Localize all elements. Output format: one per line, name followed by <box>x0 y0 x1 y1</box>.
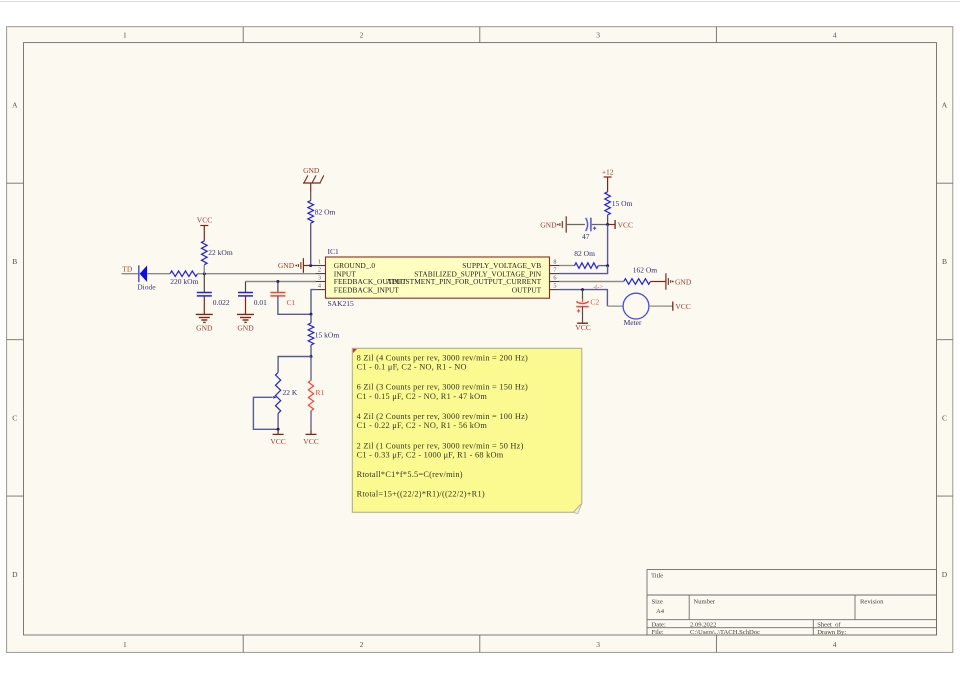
wire IC pin4 down <box>311 290 316 315</box>
pin 8 SUPPLY_VOLTAGE_VB <box>550 265 560 267</box>
svg-text:4 Zil (2 Counts per rev, 3000: 4 Zil (2 Counts per rev, 3000 rev/min = … <box>357 412 528 421</box>
svg-text:A: A <box>12 101 18 110</box>
wire R220k to IC pin2 <box>198 273 316 275</box>
svg-text:GND: GND <box>540 220 557 229</box>
wire pot wiper loop <box>253 397 278 429</box>
svg-text:SAK215: SAK215 <box>328 299 355 308</box>
svg-text:C1 - 0.1 μF, C2 - NO, R1 - NO: C1 - 0.1 μF, C2 - NO, R1 - NO <box>357 363 467 372</box>
svg-text:B: B <box>12 257 17 266</box>
svg-text:220 kOm: 220 kOm <box>170 277 198 286</box>
svg-text:22 kOm: 22 kOm <box>208 248 233 257</box>
svg-text:Number: Number <box>694 599 716 606</box>
wire node down to C 0.022 <box>203 274 205 293</box>
svg-text:Revision: Revision <box>860 599 884 606</box>
svg-text:C:\Users\..\TACH.SchDoc: C:\Users\..\TACH.SchDoc <box>690 629 760 636</box>
wire IC pin3 to caps <box>246 281 316 283</box>
ground GND port right of 162Om <box>650 273 691 289</box>
svg-text:2: 2 <box>318 267 321 274</box>
svg-text:8: 8 <box>553 259 556 266</box>
svg-text:15 kOm: 15 kOm <box>315 331 340 340</box>
resistor 82 Om horizontal <box>574 249 598 268</box>
wire gnd junction to pin1 <box>311 265 316 267</box>
svg-text:GND: GND <box>237 324 254 333</box>
pin 7 STABILIZED_SUPPLY_VOLTAGE_PIN <box>550 273 560 275</box>
svg-text:C2: C2 <box>590 298 599 307</box>
wire C2 stem <box>582 290 584 299</box>
power +12 <box>602 167 614 191</box>
svg-text:Sheet of: Sheet of <box>817 621 841 628</box>
ground GND port at pin1 <box>278 258 311 273</box>
wire 82Om to junction <box>598 265 607 267</box>
capacitor C1 <box>270 293 295 307</box>
svg-text:8 Zil (4 Counts per rev, 3000: 8 Zil (4 Counts per rev, 3000 rev/min = … <box>357 354 528 363</box>
resistor 220 kOm <box>170 271 199 286</box>
resistor 15 kOm <box>308 323 339 345</box>
wire junction to R1 <box>310 357 312 381</box>
wire junction to 22K pot <box>278 357 311 373</box>
svg-text:C1: C1 <box>287 298 296 307</box>
svg-text:GND: GND <box>675 277 692 286</box>
junction node 22K bottom <box>277 428 280 431</box>
resistor R1 <box>308 380 324 411</box>
ground GND under 0.01 <box>237 296 254 333</box>
diode Diode <box>137 265 156 291</box>
junction node cap47/15Om <box>606 223 609 226</box>
wire meter to VCC <box>649 305 673 307</box>
svg-text:D: D <box>12 570 18 579</box>
meter M1 <box>623 293 649 327</box>
svg-text:162 Om: 162 Om <box>633 266 658 275</box>
junction node pin8 net <box>606 264 609 267</box>
power VCC under C2 <box>575 307 590 333</box>
svg-text:2 Zil (1 Counts per rev, 3000: 2 Zil (1 Counts per rev, 3000 rev/min = … <box>357 441 524 450</box>
svg-text:0.022: 0.022 <box>213 298 230 307</box>
svg-text:C1 - 0.22 μF, C2 - NO, R1 - 56: C1 - 0.22 μF, C2 - NO, R1 - 56 kOm <box>357 421 488 430</box>
svg-text:VCC: VCC <box>197 216 212 225</box>
svg-text:1: 1 <box>123 640 127 649</box>
junction node mid <box>310 355 313 358</box>
svg-text:Size: Size <box>652 599 663 606</box>
title block <box>647 570 937 636</box>
svg-text:2: 2 <box>360 640 364 649</box>
capacitor 0.01 <box>238 293 267 307</box>
svg-text:D: D <box>942 570 948 579</box>
svg-text:VCC: VCC <box>675 302 690 311</box>
svg-text:82 Om: 82 Om <box>315 208 336 217</box>
svg-text:82 Om: 82 Om <box>574 249 595 258</box>
svg-text:Title: Title <box>651 573 663 580</box>
svg-text:-(->: -(-> <box>593 283 603 290</box>
power VCC top-left <box>197 216 212 241</box>
svg-text:4: 4 <box>833 30 837 39</box>
ground chassis GND top <box>303 166 324 201</box>
svg-text:OUTPUT: OUTPUT <box>512 285 542 294</box>
svg-text:VCC: VCC <box>575 323 590 332</box>
wire pin8 stub to resistor <box>559 265 574 267</box>
wire C1 bottom to pin4 net <box>278 296 311 314</box>
resistor 15 Om <box>605 192 633 215</box>
pin 5 OUTPUT <box>550 289 560 291</box>
svg-text:+12: +12 <box>602 167 614 176</box>
pin 2 INPUT <box>316 273 326 275</box>
svg-text:2: 2 <box>360 30 364 39</box>
resistor 162 Om <box>624 266 658 285</box>
ground GND under 0.022 <box>196 296 213 333</box>
wire 15kOm to junction <box>310 345 312 357</box>
wire diode to R 220kOm <box>147 273 170 275</box>
power VCC under 22K <box>270 429 285 446</box>
junction node C1 top <box>276 280 279 283</box>
svg-text:B: B <box>942 257 947 266</box>
wire 22K bottom <box>277 413 279 429</box>
svg-text:0.01: 0.01 <box>254 298 267 307</box>
svg-text:Rtotall*C1*f*5.5=C(rev/min): Rtotall*C1*f*5.5=C(rev/min) <box>357 470 463 479</box>
svg-text:Diode: Diode <box>137 283 156 292</box>
junction node pin4/C1 <box>310 313 313 316</box>
wire pin7 bend <box>559 266 607 274</box>
resistor 82 Om vertical <box>308 201 336 224</box>
svg-text:VCC: VCC <box>303 437 318 446</box>
svg-text:IC1: IC1 <box>328 247 340 256</box>
svg-text:Rtotal=15+((22/2)*R1)/((22/2)+: Rtotal=15+((22/2)*R1)/((22/2)+R1) <box>357 490 485 499</box>
svg-text:C: C <box>12 414 17 423</box>
capacitor 47 polarized <box>582 218 596 241</box>
wire pin6 to 162Om <box>559 281 623 283</box>
junction node C2 <box>581 288 584 291</box>
ground GND port left of cap47 <box>540 216 585 232</box>
svg-text:6 Zil (3 Counts per rev, 3000: 6 Zil (3 Counts per rev, 3000 rev/min = … <box>357 383 528 392</box>
svg-text:47: 47 <box>582 232 590 241</box>
svg-text:5: 5 <box>553 283 556 290</box>
svg-text:6: 6 <box>553 275 556 282</box>
svg-text:3: 3 <box>596 30 600 39</box>
svg-text:1: 1 <box>318 259 321 266</box>
wire pin5 output to meter <box>559 290 607 307</box>
svg-text:C: C <box>942 414 947 423</box>
wire cap47 to VCC node <box>592 224 608 226</box>
wire node down to pin8 junction <box>607 225 609 266</box>
wire junction to 15kOm <box>310 314 312 323</box>
svg-text:C1 - 0.15 μF, C2 - NO, R1 - 47: C1 - 0.15 μF, C2 - NO, R1 - 47 kOm <box>357 392 488 401</box>
svg-text:GND: GND <box>278 261 295 270</box>
capacitor 0.022 <box>197 293 230 307</box>
svg-text:VCC: VCC <box>618 220 633 229</box>
svg-text:A: A <box>942 101 948 110</box>
svg-text:FEEDBACK_INPUT: FEEDBACK_INPUT <box>334 285 400 294</box>
svg-text:A4: A4 <box>656 608 665 615</box>
svg-text:3: 3 <box>596 640 600 649</box>
svg-text:15 Om: 15 Om <box>612 199 633 208</box>
svg-text:Drawn By:: Drawn By: <box>817 629 846 636</box>
note yellow sticky <box>352 348 582 513</box>
wire C1 top stem <box>277 282 279 293</box>
svg-text:4: 4 <box>833 640 837 649</box>
svg-text:File:: File: <box>652 629 664 636</box>
resistor 22 kOm <box>202 241 233 265</box>
capacitor C2 polarized <box>576 298 599 313</box>
svg-text:GND: GND <box>303 166 320 175</box>
svg-text:Date:: Date: <box>652 621 666 628</box>
svg-text:TD: TD <box>122 265 133 274</box>
power VCC right of cap47 <box>615 220 633 229</box>
pin 3 FEEDBACK_OUTPUT <box>316 281 326 283</box>
junction node pin1 <box>309 264 312 267</box>
potentiometer 22 K <box>273 372 298 413</box>
svg-text:7: 7 <box>553 267 556 274</box>
pin 1 GROUND_.0 <box>316 265 326 267</box>
svg-text:C1 - 0.33 μF, C2 - 1000 μF, R1: C1 - 0.33 μF, C2 - 1000 μF, R1 - 68 kOm <box>357 450 504 459</box>
op-amp U IC1 SAK215 body <box>326 247 550 308</box>
power VCC right of meter <box>673 302 691 312</box>
svg-text:1: 1 <box>123 30 127 39</box>
junction node at 204 <box>203 272 206 275</box>
svg-text:GND: GND <box>196 324 213 333</box>
svg-text:2.09.2022: 2.09.2022 <box>690 621 716 628</box>
wire TD to diode <box>122 273 140 275</box>
power VCC under R1 <box>303 429 318 446</box>
pin 6 ADJUSTMENT_PIN_FOR_OUTPUT_CURRENT <box>550 281 560 283</box>
wire 82Om to pin1 junction <box>310 223 312 265</box>
wire R22k to node <box>203 265 205 274</box>
wire R1 bottom <box>310 411 312 429</box>
svg-text:R1: R1 <box>316 388 325 397</box>
svg-text:VCC: VCC <box>270 437 285 446</box>
svg-text:3: 3 <box>318 275 321 282</box>
svg-text:22 K: 22 K <box>283 388 298 397</box>
pin 4 FEEDBACK_INPUT <box>316 289 326 291</box>
svg-text:Meter: Meter <box>624 318 642 327</box>
wire 15Om to node <box>607 215 609 225</box>
